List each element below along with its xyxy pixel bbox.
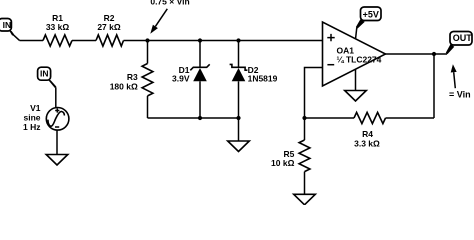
svg-text:180 kΩ: 180 kΩ (110, 82, 138, 92)
svg-text:R3: R3 (127, 72, 138, 82)
svg-text:1 Hz: 1 Hz (23, 122, 40, 132)
svg-text:R4: R4 (362, 129, 373, 139)
svg-text:¼ TLC2274: ¼ TLC2274 (337, 55, 382, 65)
svg-text:27 kΩ: 27 kΩ (97, 22, 121, 32)
svg-text:IN: IN (40, 68, 49, 78)
svg-text:IN: IN (3, 20, 12, 30)
svg-text:3.9V: 3.9V (172, 73, 190, 83)
svg-text:= Vin: = Vin (449, 89, 471, 99)
svg-text:OUT: OUT (453, 33, 473, 43)
svg-text:10 kΩ: 10 kΩ (271, 158, 295, 168)
svg-text:0.75 × Vin: 0.75 × Vin (150, 0, 189, 7)
svg-text:1N5819: 1N5819 (248, 73, 278, 83)
svg-text:+5V: +5V (363, 10, 379, 20)
svg-text:33 kΩ: 33 kΩ (46, 22, 70, 32)
svg-text:3.3 kΩ: 3.3 kΩ (354, 139, 380, 149)
